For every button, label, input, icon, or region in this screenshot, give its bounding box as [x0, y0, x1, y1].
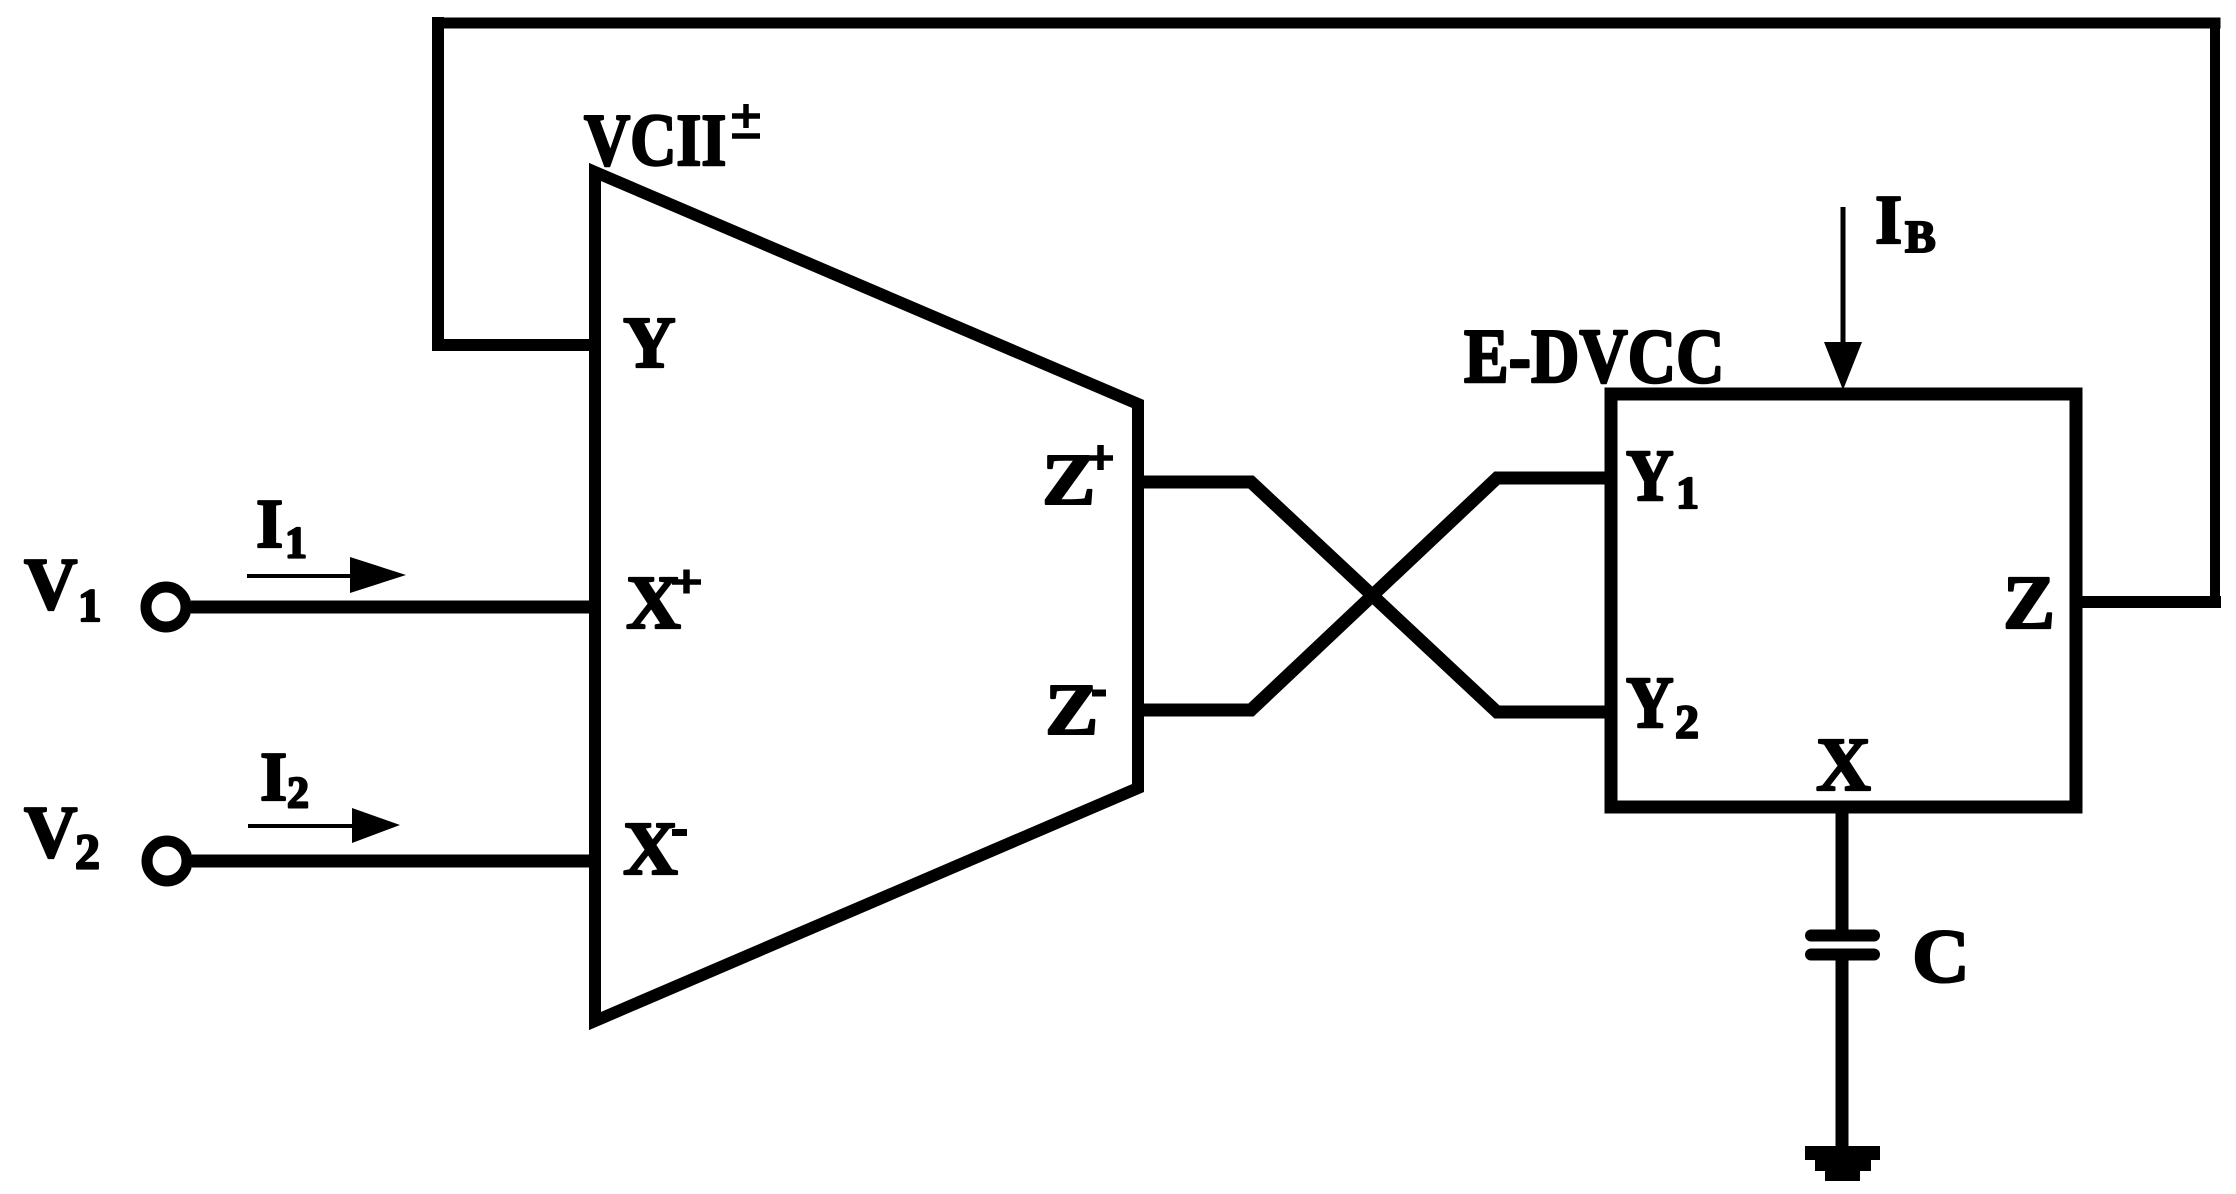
svg-text:VCII: VCII	[584, 99, 726, 181]
current source IB arrow line	[1841, 207, 1846, 348]
svg-text:B: B	[1905, 211, 1936, 262]
svg-text:2: 2	[75, 823, 100, 879]
svg-text:I: I	[260, 739, 287, 816]
svg-text:X: X	[626, 561, 681, 645]
wire Z+ to Y2 (crossing)	[1138, 482, 1611, 712]
current arrow I2	[248, 824, 358, 828]
wire Z output of E-DVCC	[2076, 596, 2215, 608]
capacitor C bottom plate	[1811, 949, 1874, 961]
wire left feedback vertical	[432, 23, 444, 345]
svg-text:X: X	[623, 807, 678, 891]
wire capacitor to ground	[1836, 954, 1849, 1150]
svg-text:Y: Y	[1626, 663, 1674, 744]
svg-text:C: C	[1912, 914, 1970, 999]
E-DVCC box	[1611, 394, 2076, 807]
current arrow I1	[247, 574, 356, 578]
terminal V1	[146, 587, 186, 627]
svg-text:1: 1	[78, 580, 102, 632]
svg-text:E-DVCC: E-DVCC	[1464, 312, 1725, 399]
svg-text:Y: Y	[1626, 436, 1674, 517]
op-amp VCII trapezoid body	[595, 172, 1138, 1021]
svg-text:Z: Z	[1045, 669, 1098, 750]
svg-text:1: 1	[285, 518, 307, 567]
svg-text:2: 2	[287, 768, 309, 817]
current source IB arrowhead	[1824, 342, 1862, 390]
svg-text:Y: Y	[623, 302, 676, 383]
wire X to capacitor	[1836, 801, 1849, 934]
svg-text:I: I	[256, 486, 283, 563]
wire V2 to X-	[192, 855, 598, 868]
label plus-minus superscript of VCII	[743, 104, 749, 128]
wire top feedback horizontal	[438, 18, 2215, 29]
wire Z- to Y1 (crossing)	[1138, 478, 1611, 710]
capacitor C top plate	[1811, 930, 1874, 942]
ground symbol	[1805, 1146, 1880, 1181]
svg-text:X: X	[1816, 723, 1871, 807]
wire right feedback vertical	[2210, 23, 2220, 602]
svg-text:I: I	[1875, 182, 1902, 259]
svg-text:1: 1	[1676, 467, 1699, 518]
wire Y feedback stub	[438, 339, 601, 351]
svg-text:V: V	[24, 544, 77, 626]
terminal V2	[147, 841, 187, 881]
wire V1 to X+	[191, 601, 598, 614]
svg-text:V: V	[24, 792, 77, 874]
svg-text:Z: Z	[1042, 439, 1095, 520]
svg-text:2: 2	[1675, 696, 1699, 749]
svg-text:Z: Z	[2003, 560, 2055, 645]
